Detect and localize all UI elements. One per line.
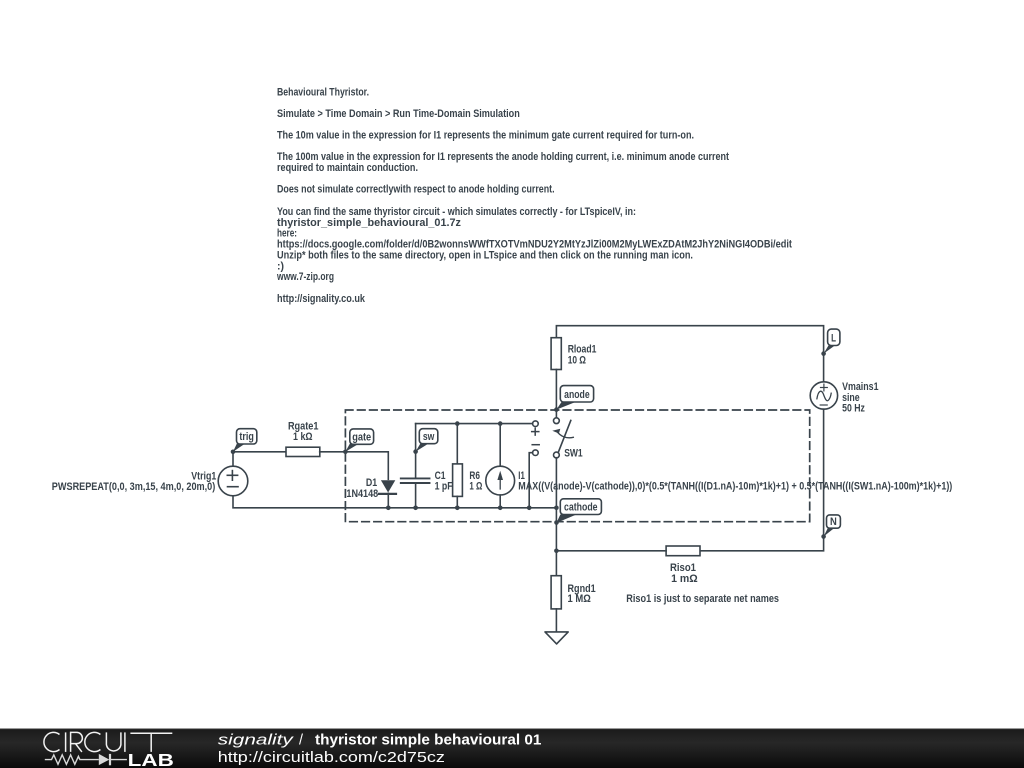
svg-text:The 10m value in the expressio: The 10m value in the expression for I1 r… (277, 130, 694, 142)
label L (831, 333, 836, 345)
node L (821, 351, 826, 356)
resistor Rgnd1 (551, 576, 561, 609)
SW1 control terminals (529, 421, 539, 508)
note Riso1 (626, 593, 779, 605)
svg-text:Riso1 is just to separate net: Riso1 is just to separate net names (626, 593, 779, 605)
logo resistor-diode drawing (45, 754, 127, 765)
node C1 bottom (413, 506, 418, 511)
resistor Riso1 (666, 546, 700, 556)
wire Rload1 to anode (555, 370, 557, 410)
wire R6 top (456, 424, 458, 464)
label gate (352, 431, 371, 443)
svg-text:50 Hz: 50 Hz (842, 402, 865, 414)
wire R6 bottom (456, 496, 458, 507)
svg-text:1N4148: 1N4148 (346, 488, 378, 500)
capacitor C1 (401, 478, 430, 483)
voltage source Vtrig1 (218, 466, 248, 496)
node trig (231, 450, 236, 455)
label I1 expression (518, 470, 952, 492)
flag L (824, 329, 840, 354)
label cathode (564, 501, 598, 513)
label Vmains1 value (842, 381, 878, 415)
node I1 bottom (498, 506, 503, 511)
CircuitLab wordmark CIRCUIT (44, 732, 172, 752)
label N (830, 516, 837, 528)
node N (821, 534, 826, 539)
svg-text:required to maintain conductio: required to maintain conduction. (277, 162, 418, 174)
wire sw vertical to C1 (415, 424, 417, 478)
svg-text:thyristor_simple_behavioural_0: thyristor_simple_behavioural_01.7z (277, 217, 461, 229)
node sw (413, 449, 418, 454)
flag sw (416, 429, 438, 452)
label Rgate1 value (288, 421, 319, 443)
svg-text:1 Ω: 1 Ω (469, 480, 482, 492)
flag N (824, 515, 841, 537)
wire I1 bottom (499, 495, 501, 508)
label C1 value (435, 470, 453, 492)
ground symbol (545, 632, 568, 644)
svg-text:1 kΩ: 1 kΩ (293, 431, 313, 443)
svg-text:Behavioural Thyristor.: Behavioural Thyristor. (277, 87, 369, 99)
diode D1 (379, 480, 396, 494)
svg-text:1 mΩ: 1 mΩ (671, 573, 698, 585)
svg-text:cathode: cathode (564, 501, 598, 513)
dashed thyristor subcircuit box (345, 410, 809, 522)
svg-text:http://circuitlab.com/c2d75cz: http://circuitlab.com/c2d75cz (218, 750, 445, 766)
label Rgnd1 value (568, 583, 596, 605)
label trig (239, 431, 254, 443)
node D1 bottom (386, 506, 391, 511)
label anode (564, 389, 590, 401)
svg-text:sw: sw (423, 431, 435, 443)
svg-text:Does not simulate correctlywit: Does not simulate correctlywith respect … (277, 184, 555, 196)
node gate (343, 450, 348, 455)
svg-text:PWSREPEAT(0,0, 3m,15, 4m,0, 20: PWSREPEAT(0,0, 3m,15, 4m,0, 20m,0) (52, 481, 216, 493)
node rail2 left (554, 549, 559, 554)
wire cathode down (555, 508, 557, 576)
svg-text:thyristor simple behavioural 0: thyristor simple behavioural 01 (315, 733, 541, 749)
svg-text:anode: anode (564, 389, 590, 401)
footer bar (0, 728, 1024, 768)
node cathode flag attach (554, 520, 559, 525)
flag gate (345, 429, 373, 452)
svg-text:1 MΩ: 1 MΩ (568, 593, 592, 605)
switch SW1 (552, 412, 573, 508)
wire bottom rail (233, 496, 556, 508)
resistor Rgate1 (286, 447, 320, 456)
node R6 top (455, 421, 460, 426)
label R6 value (469, 470, 482, 492)
resistor R6 (453, 464, 463, 497)
flag trig (233, 429, 257, 452)
svg-text:gate: gate (352, 431, 371, 443)
svg-text:10 Ω: 10 Ω (568, 355, 587, 367)
svg-text:N: N (830, 516, 837, 528)
wire C1 bottom (415, 483, 417, 508)
node I1 top (498, 421, 503, 426)
node SW1 minus wire (527, 506, 532, 511)
svg-text:signality: signality (218, 733, 294, 749)
svg-text:MAX((V(anode)-V(cathode)),0)*(: MAX((V(anode)-V(cathode)),0)*(0.5*(TANH(… (518, 481, 952, 493)
current source I1 (486, 466, 515, 495)
svg-text:/: / (299, 733, 303, 749)
svg-text:1 pF: 1 pF (435, 480, 453, 492)
label Rload1 value (568, 344, 597, 367)
wire I1 top (499, 424, 501, 467)
label sw (423, 431, 435, 443)
wire rail2 left (556, 550, 666, 552)
wire Rgate1 to gate to D1 (320, 452, 389, 480)
voltage source Vmains1 (810, 382, 837, 409)
svg-text:LAB: LAB (128, 750, 174, 768)
wire inner top rail (sw to SW1 plus) (416, 423, 533, 425)
node anode (554, 407, 559, 412)
node cathode rail (554, 506, 559, 511)
flag anode (556, 386, 593, 410)
flag cathode (557, 499, 602, 523)
resistor Rload1 (551, 338, 561, 370)
svg-text:SW1: SW1 (564, 447, 583, 459)
label Riso1 value (670, 562, 698, 585)
label Vtrig1 value (52, 470, 217, 493)
svg-text:Simulate > Time Domain > Run T: Simulate > Time Domain > Run Time-Domain… (277, 108, 520, 120)
svg-text:Unzip* both files to the same: Unzip* both files to the same directory,… (277, 250, 693, 262)
svg-text:www.7-zip.org: www.7-zip.org (276, 271, 334, 283)
svg-text:trig: trig (239, 431, 254, 443)
wire top rail L (556, 326, 823, 382)
svg-text:L: L (831, 333, 836, 345)
node R6 bottom (455, 506, 460, 511)
wire Rgnd1 to ground (555, 609, 557, 631)
wire Vtrig1 top to trig (233, 452, 287, 466)
svg-text:http://signality.co.uk: http://signality.co.uk (277, 293, 365, 305)
wire Vmains1 bottom to N to rail2 (700, 409, 824, 551)
wire D1 bottom (387, 493, 389, 507)
label D1 value (346, 477, 378, 500)
label SW1 (564, 447, 583, 459)
